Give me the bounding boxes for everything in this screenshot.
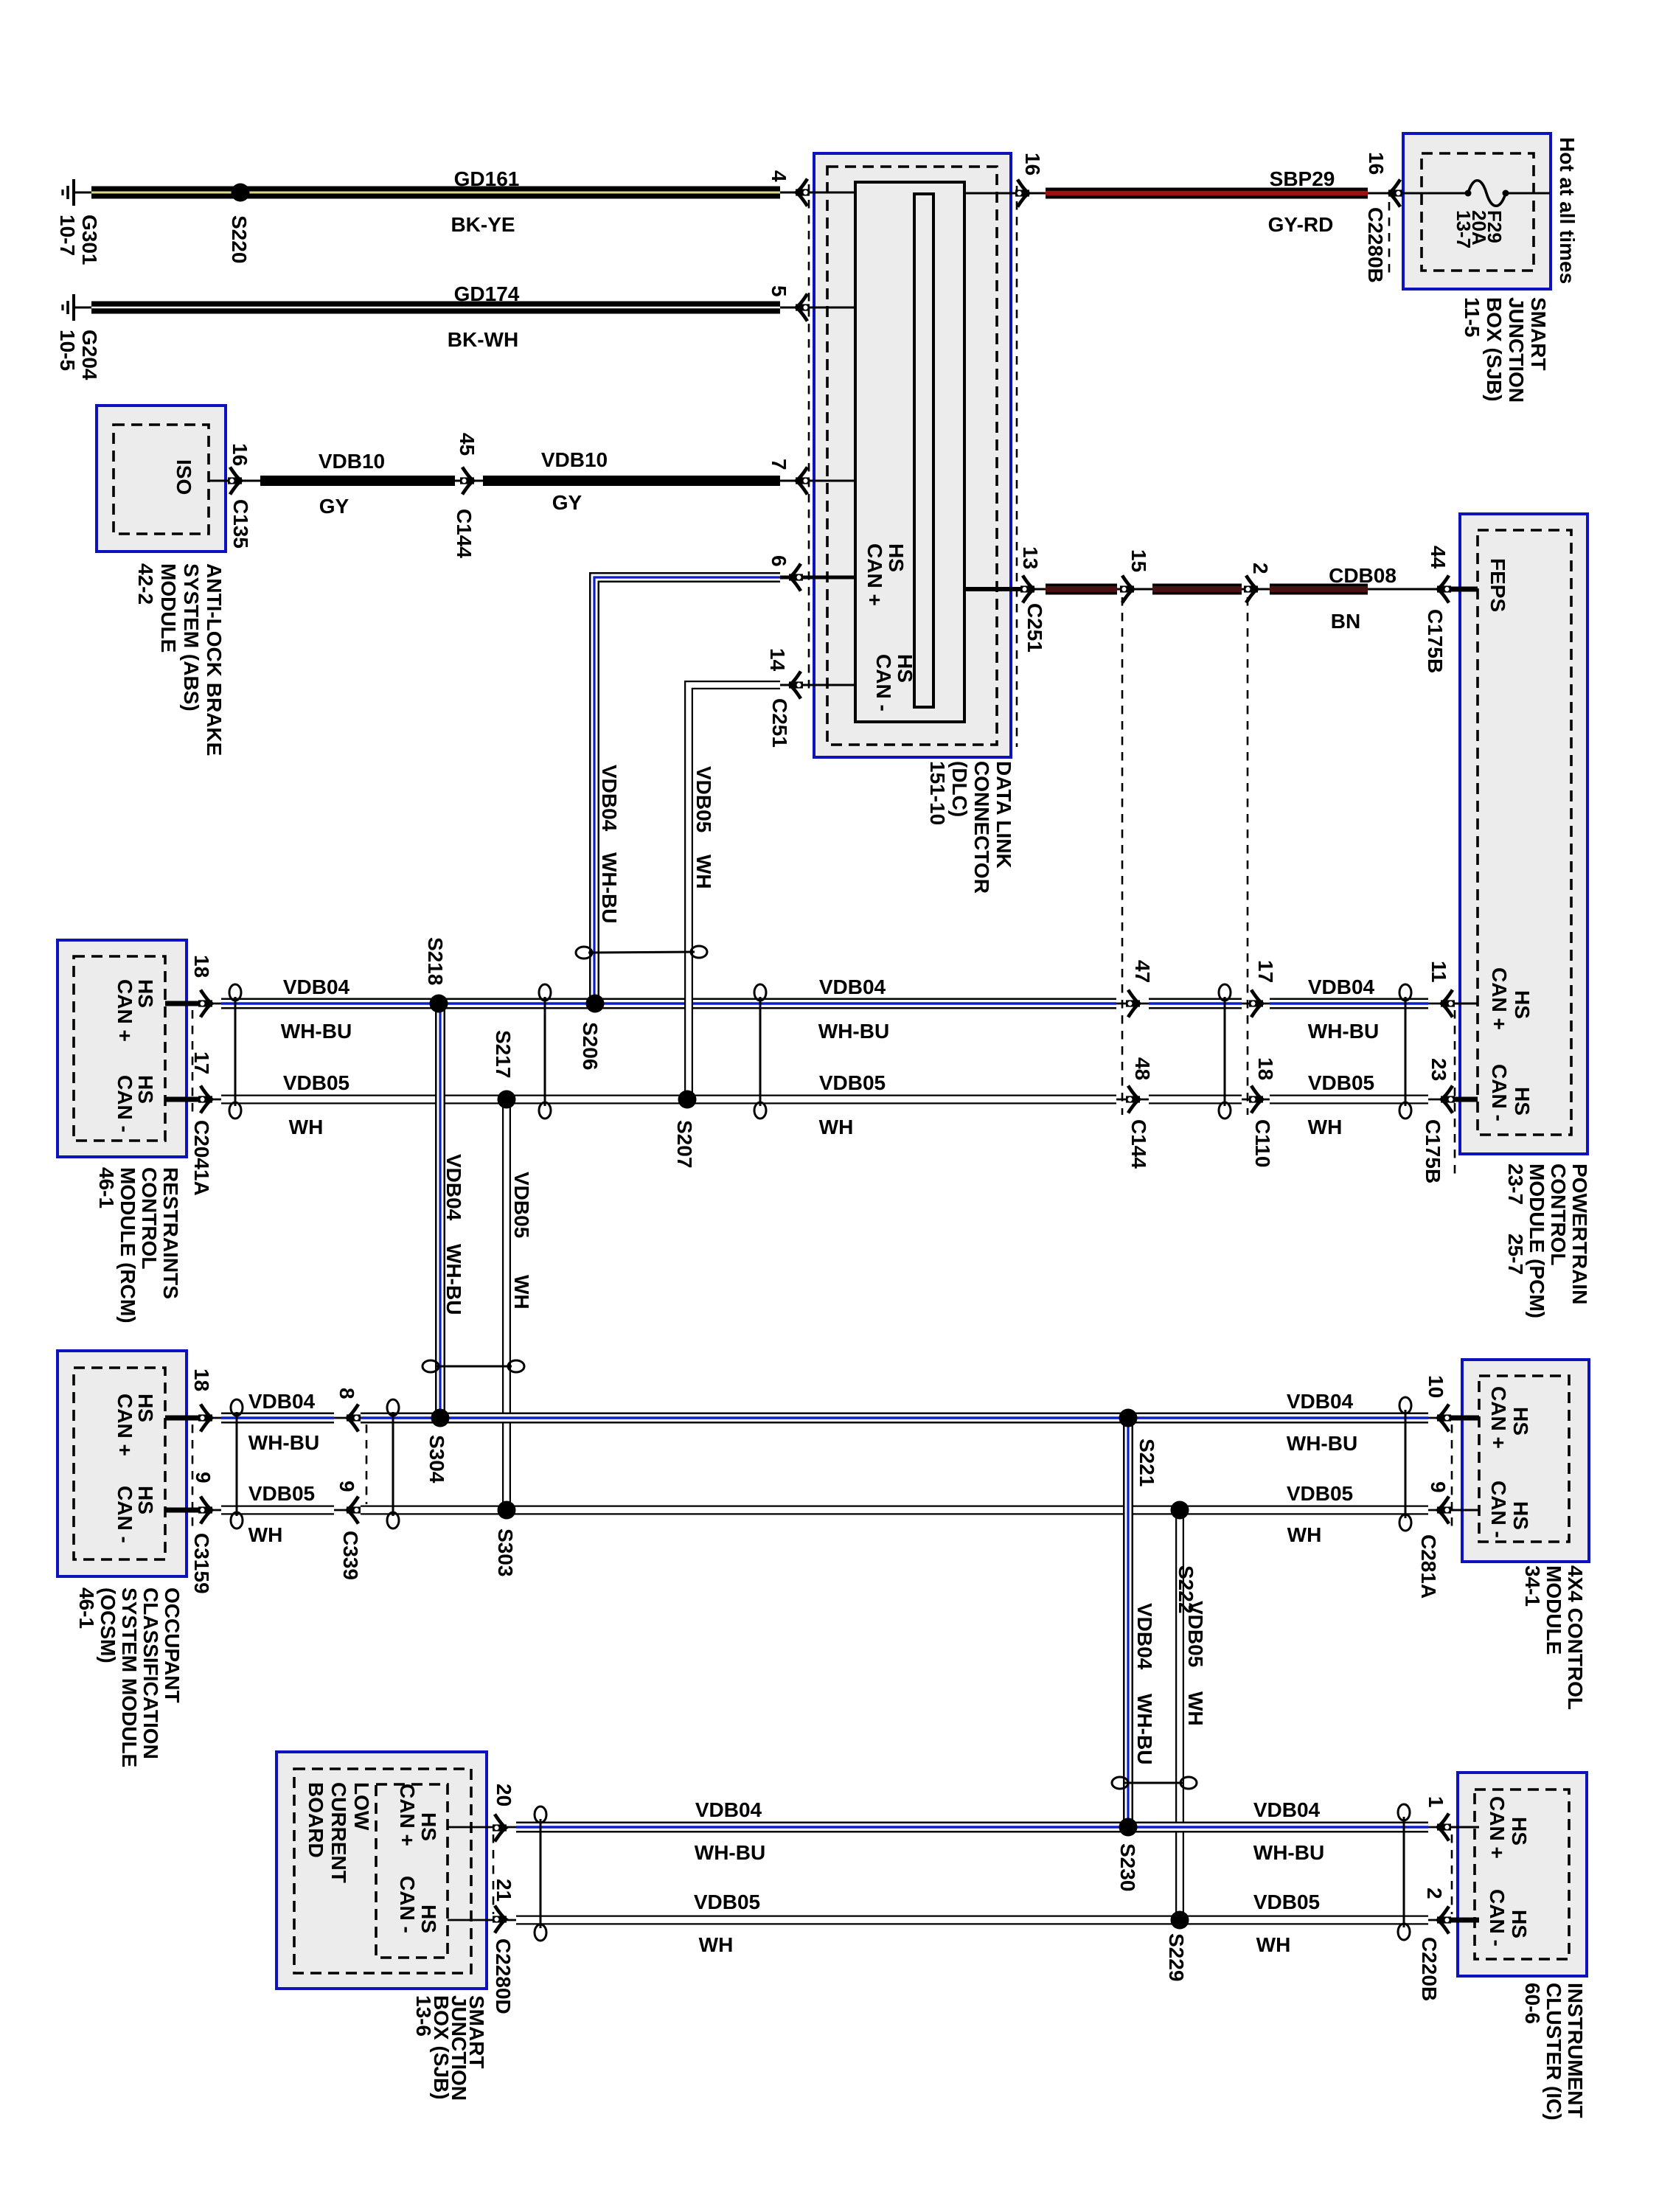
svg-text:4: 4 bbox=[768, 170, 790, 182]
wire CDB08 BN (DLC pin 13 to PCM pin 44 via inline 15 / 2) bbox=[964, 588, 1478, 591]
pin arrow DLC 7 bbox=[796, 467, 810, 495]
pin arrow PCM 23 bbox=[1441, 1086, 1455, 1113]
svg-text:GY: GY bbox=[552, 491, 582, 514]
pin arrow inline 18 bbox=[1249, 1086, 1263, 1113]
PCM pin 11 / 23 internal stubs bbox=[1441, 1004, 1478, 1099]
smart junction box SJB (bottom, low current board) bbox=[276, 1752, 487, 1989]
wire GD161 BK-YE (ground G301 to DLC pin 4) bbox=[91, 187, 855, 199]
svg-text:C175B: C175B bbox=[1422, 1119, 1444, 1183]
svg-text:VDB04: VDB04 bbox=[1308, 975, 1375, 998]
splice S207 bbox=[678, 1091, 697, 1109]
powertrain control module PCM box bbox=[1460, 514, 1587, 1154]
connector dashed line C339 bbox=[366, 1425, 368, 1504]
svg-text:BK-YE: BK-YE bbox=[451, 213, 515, 236]
wire SBP29 GY-RD (DLC pin 16 to SJB fuse F29) bbox=[964, 192, 1403, 195]
svg-text:18: 18 bbox=[190, 955, 213, 978]
svg-text:S304: S304 bbox=[425, 1435, 448, 1484]
svg-text:GY: GY bbox=[319, 495, 349, 518]
svg-text:9: 9 bbox=[1427, 1481, 1450, 1493]
svg-text:VDB05: VDB05 bbox=[819, 1071, 886, 1094]
wire VDB05 WH (DLC pin 14 down to splice S207) bbox=[689, 685, 855, 1099]
svg-text:C110: C110 bbox=[1251, 1119, 1274, 1167]
svg-text:8: 8 bbox=[335, 1388, 358, 1399]
svg-text:ISO: ISO bbox=[173, 459, 195, 495]
svg-text:C2280D: C2280D bbox=[492, 1938, 515, 2014]
wire VDB05 WH (splice S217 down to splice S303) bbox=[502, 1099, 511, 1510]
svg-text:BK-WH: BK-WH bbox=[448, 328, 518, 351]
svg-text:10: 10 bbox=[1425, 1375, 1447, 1398]
pin arrow C339 8 bbox=[347, 1405, 361, 1432]
svg-text:VDB05: VDB05 bbox=[510, 1172, 533, 1238]
svg-text:VDB10: VDB10 bbox=[319, 450, 385, 473]
svg-text:VDB04: VDB04 bbox=[442, 1154, 465, 1221]
pin arrow inline 17 bbox=[1249, 990, 1263, 1018]
svg-text:SBP29: SBP29 bbox=[1270, 167, 1335, 190]
svg-text:5: 5 bbox=[768, 285, 790, 297]
svg-text:S218: S218 bbox=[424, 937, 447, 985]
svg-text:S303: S303 bbox=[494, 1528, 517, 1576]
splice S218 bbox=[430, 995, 448, 1013]
svg-text:17: 17 bbox=[190, 1051, 213, 1074]
pin arrow inline 47 bbox=[1126, 990, 1140, 1018]
pin arrow C144 45 bbox=[460, 467, 474, 495]
svg-text:C135: C135 bbox=[229, 499, 252, 549]
ground G301 symbol bbox=[63, 179, 91, 206]
svg-text:45: 45 bbox=[456, 433, 479, 456]
svg-text:VDB05: VDB05 bbox=[694, 1891, 760, 1913]
splice S220 bbox=[232, 184, 250, 202]
twisted pair loop (bus x=319) bbox=[229, 984, 241, 1119]
svg-text:7: 7 bbox=[768, 459, 790, 470]
svg-text:13: 13 bbox=[1019, 546, 1042, 569]
twisted pair loop (bus x=1031) bbox=[754, 984, 766, 1119]
svg-text:WH-BU: WH-BU bbox=[1133, 1694, 1156, 1764]
twisted pair loop (vertical pair y=2418) bbox=[1112, 1777, 1197, 1789]
svg-text:S229: S229 bbox=[1165, 1933, 1188, 1981]
svg-text:VDB04: VDB04 bbox=[1253, 1798, 1321, 1821]
svg-text:WH-BU: WH-BU bbox=[818, 1020, 889, 1043]
svg-text:VDB04: VDB04 bbox=[819, 975, 886, 998]
svg-text:WH: WH bbox=[1184, 1691, 1207, 1726]
svg-text:WH: WH bbox=[1256, 1933, 1291, 1956]
svg-text:Hot at all times: Hot at all times bbox=[1556, 137, 1579, 284]
connector dashed line C220B (IC) bbox=[1451, 1834, 1453, 1914]
svg-text:C251: C251 bbox=[1023, 603, 1046, 653]
svg-text:WH: WH bbox=[248, 1523, 283, 1546]
svg-text:WH: WH bbox=[1287, 1523, 1322, 1546]
svg-text:16: 16 bbox=[1365, 152, 1388, 175]
connector dashed line C110 bbox=[1247, 597, 1249, 1115]
svg-text:C220B: C220B bbox=[1418, 1937, 1441, 2001]
twisted pair loop (bus x=1906) bbox=[1399, 984, 1411, 1119]
svg-text:21: 21 bbox=[493, 1879, 515, 1902]
pin arrow SJB 20 bbox=[493, 1815, 507, 1842]
svg-text:VDB04: VDB04 bbox=[248, 1390, 316, 1413]
svg-text:S220: S220 bbox=[228, 215, 251, 263]
twisted pair loop (IC row x=1904) bbox=[1398, 1804, 1410, 1940]
splice S304 bbox=[431, 1409, 450, 1427]
occupant classification system module OCSM box bbox=[58, 1351, 187, 1576]
pin arrow DLC 5 bbox=[796, 294, 810, 321]
wire VDB04 WH-BU (splice S218 down to splice S304) bbox=[435, 1004, 445, 1418]
svg-text:F2920A13-7: F2920A13-7 bbox=[1453, 210, 1506, 248]
wire VDB04 WH-BU (splice S221 down to splice S230) bbox=[1123, 1418, 1133, 1827]
pin arrow DLC 14 bbox=[789, 672, 803, 699]
twisted pair loop (bus x=1661) bbox=[1219, 984, 1231, 1119]
svg-text:6: 6 bbox=[768, 555, 790, 567]
splice S229 bbox=[1171, 1911, 1189, 1930]
wire VDB04 WH-BU (DLC pin 6 down to splice S206) bbox=[594, 577, 855, 1004]
splice S222 bbox=[1171, 1501, 1189, 1520]
svg-text:GD174: GD174 bbox=[454, 282, 520, 305]
pin arrow RCM 18 bbox=[198, 990, 212, 1018]
wire VDB05 WH row (OCSM pin 9 / C339 pin 9 / S303 / S222 to 4x4 pin 9) bbox=[165, 1509, 1479, 1512]
splice S217 bbox=[498, 1091, 516, 1109]
svg-text:VDB04: VDB04 bbox=[283, 975, 350, 998]
svg-text:WH-BU: WH-BU bbox=[248, 1431, 319, 1454]
svg-text:C144: C144 bbox=[453, 509, 476, 558]
svg-text:VDB04: VDB04 bbox=[598, 765, 621, 832]
pin arrow inline 48 bbox=[1126, 1086, 1140, 1113]
svg-text:16: 16 bbox=[229, 443, 251, 466]
twisted pair loop (bus x=739) bbox=[539, 984, 551, 1119]
twisted pair loop (vertical pair y=1853) bbox=[422, 1360, 524, 1372]
svg-text:C339: C339 bbox=[339, 1531, 362, 1580]
connector dashed line C3159 (OCSM) bbox=[192, 1425, 194, 1528]
svg-text:17: 17 bbox=[1254, 960, 1277, 983]
ground G204 symbol bbox=[63, 294, 91, 321]
svg-text:VDB04: VDB04 bbox=[1133, 1603, 1156, 1670]
svg-text:VDB05: VDB05 bbox=[248, 1482, 315, 1505]
pin arrow C135 16 bbox=[228, 467, 242, 495]
svg-text:9: 9 bbox=[335, 1481, 358, 1492]
pin arrow IC 1 bbox=[1437, 1814, 1451, 1841]
pin arrow IC 2 bbox=[1437, 1907, 1451, 1934]
svg-text:20: 20 bbox=[493, 1784, 515, 1806]
twisted pair loop (4x4 row x=1906) bbox=[1399, 1397, 1411, 1531]
svg-text:18: 18 bbox=[190, 1368, 213, 1391]
pin arrow DLC 13 bbox=[1020, 576, 1034, 603]
connector dashed line C175B (PCM pins 11-23) bbox=[1454, 1010, 1456, 1178]
svg-text:WH: WH bbox=[1308, 1116, 1343, 1138]
connector dashed line C281A (4x4) bbox=[1451, 1425, 1453, 1528]
svg-text:VDB05: VDB05 bbox=[283, 1071, 349, 1094]
restraints control module RCM box bbox=[58, 940, 187, 1157]
svg-text:C281A: C281A bbox=[1417, 1534, 1440, 1599]
instrument cluster IC box bbox=[1458, 1773, 1587, 1976]
svg-text:VDB05: VDB05 bbox=[1287, 1482, 1353, 1505]
svg-text:C251: C251 bbox=[768, 698, 791, 748]
wire VDB04 WH-BU row (OCSM pin 18 / C339 pin 8 / S304 / S221 to 4x4 pin 10) bbox=[165, 1417, 1479, 1419]
pin arrow inline 2 bbox=[1244, 576, 1258, 603]
svg-text:47: 47 bbox=[1131, 960, 1154, 983]
svg-text:WH-BU: WH-BU bbox=[442, 1244, 465, 1315]
svg-text:14: 14 bbox=[766, 648, 789, 672]
wire VDB05 WH row (SJB pin 21 / S229 to IC pin 2) bbox=[448, 1919, 1479, 1921]
svg-text:WH: WH bbox=[819, 1116, 854, 1138]
pin arrow DLC 16 bbox=[1015, 180, 1029, 207]
wire GD174 BK-WH (ground G204 to DLC pin 5) bbox=[91, 302, 855, 314]
svg-text:1: 1 bbox=[1425, 1796, 1447, 1808]
svg-text:2: 2 bbox=[1249, 563, 1272, 574]
4x4 control module box bbox=[1462, 1360, 1589, 1562]
svg-text:18: 18 bbox=[1254, 1057, 1277, 1080]
svg-text:VDB05: VDB05 bbox=[692, 766, 715, 832]
svg-text:C2280B: C2280B bbox=[1364, 207, 1387, 283]
svg-text:WH: WH bbox=[692, 855, 715, 889]
svg-text:11: 11 bbox=[1427, 961, 1450, 983]
connector dashed line C2280D (SJB bottom) bbox=[493, 1834, 495, 1914]
wire VDB04 WH-BU bus (RCM pin 18 to PCM pin 11) bbox=[165, 1003, 1441, 1005]
data link connector DLC box bbox=[814, 153, 1011, 757]
twisted pair loop (OCSM row x=533) bbox=[387, 1399, 399, 1528]
svg-text:S221: S221 bbox=[1135, 1439, 1158, 1486]
connector dashed line C2041A (RCM) bbox=[192, 1010, 194, 1115]
svg-text:C3159: C3159 bbox=[190, 1533, 213, 1594]
svg-text:WH-BU: WH-BU bbox=[1287, 1432, 1357, 1455]
fuse F29 20A element and leads bbox=[1403, 181, 1550, 206]
splice S303 bbox=[498, 1501, 516, 1520]
twisted pair loop (OCSM row x=321) bbox=[231, 1399, 243, 1528]
svg-text:BN: BN bbox=[1331, 610, 1360, 633]
svg-text:WH-BU: WH-BU bbox=[281, 1020, 352, 1043]
svg-text:C144: C144 bbox=[1127, 1119, 1150, 1169]
wire VDB05 WH bus (RCM pin 17 to PCM pin 23) bbox=[165, 1099, 1441, 1101]
pin arrow RCM 17 bbox=[198, 1086, 212, 1113]
pin arrow PCM 11 bbox=[1441, 990, 1455, 1018]
svg-text:S207: S207 bbox=[673, 1120, 696, 1168]
svg-text:VDB04: VDB04 bbox=[695, 1798, 762, 1821]
pin arrow DLC 6 bbox=[789, 564, 803, 591]
svg-text:C175B: C175B bbox=[1424, 609, 1447, 673]
anti-lock brake system ABS module box bbox=[97, 406, 226, 552]
svg-text:GY-RD: GY-RD bbox=[1268, 213, 1334, 236]
splice S206 bbox=[586, 995, 605, 1013]
svg-text:S230: S230 bbox=[1116, 1843, 1139, 1891]
svg-text:15: 15 bbox=[1127, 549, 1150, 572]
pin arrow inline 15 bbox=[1120, 576, 1134, 603]
svg-text:WH-BU: WH-BU bbox=[1253, 1841, 1324, 1864]
pin arrow SJB 21 bbox=[493, 1906, 507, 1933]
svg-text:WH: WH bbox=[289, 1116, 324, 1138]
svg-text:WH-BU: WH-BU bbox=[695, 1841, 765, 1864]
smart junction box SJB (top, fuse F29) bbox=[1403, 133, 1551, 289]
pin arrow 4x4 10 bbox=[1437, 1405, 1451, 1432]
svg-text:S217: S217 bbox=[492, 1030, 515, 1078]
connector dashed line C251 left (DLC pins 4-14) bbox=[808, 184, 810, 693]
twisted pair loop (IC row x=733) bbox=[535, 1806, 546, 1941]
pin arrow 4x4 9 bbox=[1437, 1497, 1451, 1524]
svg-text:CDB08: CDB08 bbox=[1329, 564, 1397, 587]
svg-text:48: 48 bbox=[1131, 1057, 1154, 1080]
splice S230 bbox=[1119, 1818, 1138, 1837]
svg-text:VDB05: VDB05 bbox=[1308, 1071, 1374, 1094]
pin arrow C339 9 bbox=[347, 1497, 361, 1524]
pin arrow C2280B 16 (SJB side) bbox=[1388, 180, 1402, 207]
svg-text:VDB10: VDB10 bbox=[541, 448, 608, 471]
pin arrow PCM 44 bbox=[1437, 576, 1451, 603]
connector dashed line C144 bbox=[1121, 597, 1124, 1115]
svg-text:VDB05: VDB05 bbox=[1184, 1601, 1207, 1667]
pin arrow DLC 4 bbox=[796, 179, 810, 206]
svg-text:WH-BU: WH-BU bbox=[1308, 1020, 1379, 1043]
svg-text:GD161: GD161 bbox=[454, 167, 520, 190]
svg-text:WH: WH bbox=[510, 1275, 533, 1310]
svg-text:25-7: 25-7 bbox=[1504, 1234, 1527, 1275]
splice S221 bbox=[1119, 1409, 1138, 1427]
svg-text:VDB05: VDB05 bbox=[1253, 1891, 1320, 1913]
svg-text:WH: WH bbox=[699, 1933, 734, 1956]
svg-text:C2041A: C2041A bbox=[190, 1120, 213, 1196]
svg-text:16: 16 bbox=[1021, 153, 1044, 175]
svg-text:9: 9 bbox=[192, 1472, 215, 1484]
pin arrow OCSM 9 bbox=[198, 1497, 212, 1524]
svg-text:FEPS: FEPS bbox=[1486, 558, 1509, 612]
wire VDB04 WH-BU row (SJB pin 20 / S230 to IC pin 1) bbox=[448, 1826, 1479, 1829]
wire VDB10 GY (ABS C135 to C144 to DLC pin 7) bbox=[208, 480, 855, 482]
wire VDB05 WH (splice S222 down to splice S229) bbox=[1175, 1510, 1184, 1920]
svg-text:23: 23 bbox=[1427, 1058, 1450, 1081]
svg-text:44: 44 bbox=[1427, 546, 1450, 569]
svg-text:2: 2 bbox=[1423, 1888, 1446, 1899]
svg-text:S206: S206 bbox=[579, 1022, 602, 1070]
pin arrow OCSM 18 bbox=[198, 1405, 212, 1432]
svg-text:WH-BU: WH-BU bbox=[598, 852, 621, 923]
twisted pair loop (vertical pair y=1292) bbox=[576, 946, 707, 959]
svg-text:VDB04: VDB04 bbox=[1287, 1390, 1354, 1413]
connector dashed line C251 right (DLC pins 16-13) bbox=[1016, 186, 1018, 747]
connector dashed stub C2280B bbox=[1388, 202, 1391, 279]
